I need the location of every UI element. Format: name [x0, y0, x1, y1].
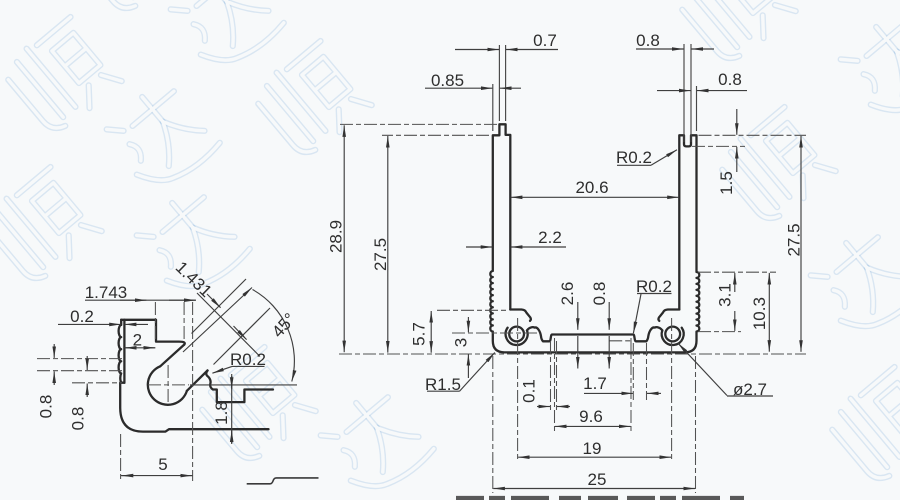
svg-text:1.7: 1.7 — [583, 374, 607, 393]
ext boss centerlines 19 — [517, 318, 519, 462]
svg-text:10.3: 10.3 — [750, 297, 769, 330]
svg-text:0.1: 0.1 — [520, 379, 539, 403]
dim 3 — [467, 317, 469, 332]
dim 1.7 — [584, 392, 633, 394]
svg-text:0.8: 0.8 — [636, 31, 660, 50]
svg-text:45°: 45° — [268, 309, 299, 341]
svg-text:19: 19 — [583, 439, 602, 458]
slot upper edge down to hole — [160, 345, 184, 367]
svg-text:R1.5: R1.5 — [425, 375, 461, 394]
dim 0.2 — [58, 323, 121, 325]
svg-text:3.1: 3.1 — [716, 283, 735, 307]
svg-text:9.6: 9.6 — [579, 407, 603, 426]
boss center cross — [148, 384, 189, 386]
dim 27.5 left — [387, 136, 389, 250]
dim 19 — [518, 456, 592, 458]
dim 9.6 — [555, 425, 592, 427]
ext hole-edge vertical — [183, 302, 185, 340]
dim 0.8 top — [636, 48, 684, 50]
dim 1.5 right — [736, 109, 738, 135]
svg-text:0.8: 0.8 — [69, 407, 88, 431]
dim 0.1 — [537, 406, 550, 408]
dim 0.7 — [455, 49, 499, 51]
ext wall top right long — [699, 134, 807, 136]
svg-text:27.5: 27.5 — [371, 238, 390, 271]
svg-text:1.5: 1.5 — [717, 171, 736, 195]
ext 9.6 pair — [554, 338, 556, 431]
ext 1.7 pair — [632, 343, 634, 400]
slot lower edge from hole to notch — [187, 371, 208, 391]
slot edge extension lines — [192, 279, 247, 334]
dim 2.2 — [466, 246, 492, 248]
svg-text:0.85: 0.85 — [431, 71, 464, 90]
dim 2 — [124, 347, 155, 349]
right boss: screw hole — [665, 327, 680, 342]
svg-text:1.8: 1.8 — [212, 401, 231, 425]
ext slot vertex vertical 5 — [192, 302, 194, 481]
left boss: ring outer arc — [506, 328, 528, 345]
ext line outer face 0.85 — [492, 84, 494, 131]
serrated outer skin (double line) — [121, 320, 124, 383]
dim 5 — [121, 475, 193, 477]
ext 5 left — [120, 434, 122, 481]
ext lines slot 0.8 top — [683, 44, 685, 142]
svg-text:R0.2: R0.2 — [616, 148, 652, 167]
ext slot bottom 1.5 — [692, 145, 745, 147]
45 deg fan arc — [253, 290, 295, 382]
dim 0.8 second — [86, 356, 88, 370]
ext step vertical 1.743 — [154, 302, 156, 340]
ext 25 pair — [492, 356, 494, 493]
ext boss center left horiz — [452, 332, 540, 334]
ext line right outer 0.8 — [696, 86, 698, 131]
svg-text:0.7: 0.7 — [533, 31, 557, 50]
dim 0.8 second — [657, 90, 691, 92]
ext 0.1 pair — [550, 341, 552, 411]
right boss: hook from wall — [658, 310, 679, 321]
ext hook top 5.7 — [437, 309, 507, 311]
dim 0.8 first — [53, 344, 55, 358]
svg-text:5.7: 5.7 — [410, 322, 429, 346]
svg-text:2.2: 2.2 — [538, 228, 562, 247]
svg-text:1.743: 1.743 — [85, 283, 128, 302]
dim 0.85 — [425, 87, 492, 89]
45 deg fan: horizontal ray — [190, 384, 297, 386]
leader R0.2 detail — [232, 365, 265, 367]
dim 25 — [493, 488, 594, 490]
svg-text:0.2: 0.2 — [70, 307, 94, 326]
ext serration top right — [698, 271, 776, 273]
bottom edge with corner radius — [120, 383, 268, 432]
svg-text:25: 25 — [588, 470, 607, 489]
boss hole circle with slot opening — [148, 366, 187, 404]
svg-text:2: 2 — [133, 331, 142, 350]
svg-text:27.5: 27.5 — [785, 223, 804, 256]
dim 1.8 — [231, 374, 233, 444]
45 deg fan: slant ray with arrow — [183, 288, 252, 353]
dim 3.1 — [734, 273, 736, 292]
svg-text:ø2.7: ø2.7 — [733, 380, 767, 399]
ext lines fin 0.7 — [498, 45, 500, 121]
dim 10.3 — [768, 273, 770, 310]
profile outer wall outline with top fin, top slot and knurled faces — [490, 124, 699, 352]
dim 20.6 — [511, 196, 594, 198]
dim 5.7 — [430, 311, 432, 330]
left boss: screw hole — [509, 327, 524, 342]
svg-text:0.8: 0.8 — [718, 70, 742, 89]
dim 1.743 — [85, 299, 196, 301]
svg-text:R0.2: R0.2 — [230, 350, 266, 369]
ext 0.8 serration crests — [37, 358, 122, 360]
left boss: hook from wall — [510, 310, 531, 321]
svg-text:3: 3 — [452, 338, 471, 347]
svg-text:5: 5 — [158, 455, 167, 474]
svg-text:R0.2: R0.2 — [636, 277, 672, 296]
ext 28.9 top — [339, 123, 497, 125]
right boss: ear bump, ledge and floor step — [633, 327, 662, 341]
svg-text:0.8: 0.8 — [37, 395, 56, 419]
dim 1.431 across slot — [197, 293, 260, 357]
ext 27.5 left wall top — [382, 134, 489, 136]
dim 27.5 right — [800, 136, 802, 240]
leader dia 2.7 — [678, 343, 727, 395]
svg-text:2.6: 2.6 — [558, 282, 577, 306]
right boss: ring outer arc — [662, 328, 684, 345]
ext ledge level — [609, 340, 633, 342]
leader R1.5 — [427, 390, 460, 392]
ext bottom long — [339, 353, 806, 355]
dim 0.8 mid arrow — [608, 302, 610, 330]
svg-text:28.9: 28.9 — [327, 220, 346, 253]
dim 28.9 — [343, 125, 345, 240]
top surface, step and hook tip corner — [124, 320, 184, 345]
leader R0.2 floor — [637, 293, 672, 295]
R0.2 notch, ear bump and surface — [206, 371, 273, 403]
svg-text:0.8: 0.8 — [590, 282, 609, 306]
ext boss center right horiz — [698, 331, 741, 333]
dim 2.6 arrow — [577, 302, 579, 330]
leader R0.2 top — [617, 164, 651, 166]
scan artifact strip at bottom — [456, 496, 744, 500]
left boss: ear bump, ledge, floor step and floor — [527, 327, 633, 341]
svg-text:20.6: 20.6 — [575, 178, 608, 197]
step symbol bottom center — [247, 478, 319, 484]
